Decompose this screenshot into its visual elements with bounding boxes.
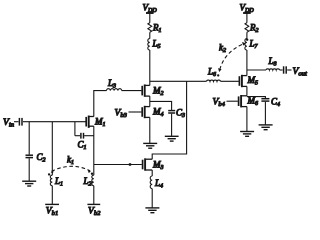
wire L3 to M2 gate bbox=[122, 90, 142, 92]
wire M2 source to M4 drain bbox=[149, 96, 151, 107]
svg-text:k2: k2 bbox=[219, 43, 226, 55]
coupling k1 dashed arc bbox=[48, 166, 93, 175]
wire to Vout bbox=[287, 69, 291, 71]
label Vb3 bbox=[115, 108, 128, 120]
ground under L4 bbox=[145, 208, 159, 213]
svg-text:L2: L2 bbox=[83, 176, 92, 188]
capacitor C2 bbox=[26, 155, 34, 157]
label R1 bbox=[152, 23, 162, 35]
resistor R2 bbox=[245, 23, 249, 33]
svg-text:M2: M2 bbox=[152, 86, 164, 98]
wire C4 to ground bbox=[264, 102, 266, 125]
svg-text:C3: C3 bbox=[176, 108, 185, 120]
capacitor C4 bbox=[261, 99, 269, 101]
label Vb2 bbox=[88, 205, 101, 217]
wire output node down to M3 drain bbox=[152, 81, 186, 159]
wire R2 to L7 bbox=[246, 32, 248, 38]
label M6 bbox=[247, 96, 259, 108]
resistor R1 bbox=[148, 23, 152, 33]
node Vb1 terminal bar bbox=[45, 203, 59, 205]
label R2 bbox=[249, 23, 259, 35]
wire VDD to R2 bbox=[246, 13, 248, 23]
wire L6 to M5 gate bbox=[221, 80, 239, 82]
svg-text:Vb1: Vb1 bbox=[46, 205, 58, 217]
svg-text:M3: M3 bbox=[152, 160, 164, 172]
svg-text:L5: L5 bbox=[152, 39, 161, 51]
label M5 bbox=[247, 75, 259, 87]
ground under C3 bbox=[165, 136, 179, 141]
transistor M6 bbox=[239, 95, 247, 107]
transistor M4 bbox=[142, 106, 150, 118]
wire C1 right lead bbox=[84, 135, 94, 137]
capacitor input coupling bbox=[19, 118, 22, 126]
inductor L5 bbox=[148, 39, 150, 50]
wire M1 source down bbox=[93, 126, 95, 164]
label Vb4 bbox=[213, 97, 226, 109]
svg-text:k1: k1 bbox=[67, 155, 74, 167]
svg-text:L1: L1 bbox=[54, 176, 63, 188]
label M3 bbox=[152, 160, 164, 172]
node Vin label bbox=[3, 117, 15, 129]
svg-text:L4: L4 bbox=[154, 178, 163, 190]
inductor L3 bbox=[107, 89, 122, 91]
node Vb2 terminal bar bbox=[87, 203, 100, 205]
ground under M4 bbox=[143, 143, 157, 148]
label k2 bbox=[219, 43, 226, 55]
inductor L2 bbox=[92, 175, 94, 186]
label L3 bbox=[107, 78, 116, 90]
svg-text:L7: L7 bbox=[249, 39, 259, 51]
svg-text:Vout: Vout bbox=[293, 66, 307, 78]
wire VDD to R1 bbox=[149, 13, 151, 23]
wire M6 source to ground bbox=[246, 107, 248, 132]
inductor L7 bbox=[245, 39, 247, 50]
wire node to C3 bbox=[150, 101, 172, 110]
label VDD left bbox=[143, 3, 158, 15]
wire L5 to M2 drain bbox=[149, 50, 151, 85]
label L8 bbox=[268, 56, 277, 68]
wire M5 source to M6 drain bbox=[246, 86, 248, 95]
wire M1 source node to L2 bbox=[93, 165, 95, 176]
wire Vb3 to M4 gate bbox=[129, 111, 142, 113]
label L2 bbox=[83, 176, 92, 188]
svg-text:C1: C1 bbox=[78, 140, 87, 152]
wire L1 branch bbox=[51, 122, 53, 176]
svg-text:M6: M6 bbox=[247, 96, 259, 108]
transistor M1 bbox=[86, 116, 94, 128]
svg-text:M4: M4 bbox=[152, 107, 164, 119]
label L1 bbox=[54, 176, 63, 188]
label C3 bbox=[176, 108, 185, 120]
wire M1 drain up bbox=[94, 91, 107, 117]
label Vb1 bbox=[46, 205, 58, 217]
wire L8 to output cap bbox=[280, 69, 283, 71]
wire C3 to ground bbox=[171, 114, 173, 136]
svg-text:R2: R2 bbox=[249, 23, 259, 35]
wire L1 to Vb1 bbox=[51, 186, 53, 205]
wire node to C4 bbox=[247, 97, 266, 99]
coupling k2 dashed arc bbox=[217, 39, 248, 77]
wire Vb4 to M6 gate bbox=[227, 100, 238, 102]
label M2 bbox=[152, 86, 164, 98]
svg-text:C2: C2 bbox=[37, 152, 46, 164]
label k1 bbox=[67, 155, 74, 167]
label C1 bbox=[78, 140, 87, 152]
label L5 bbox=[152, 39, 161, 51]
wire M3 source to L4 bbox=[151, 170, 153, 176]
svg-text:M1: M1 bbox=[94, 117, 106, 129]
label L7 bbox=[249, 39, 259, 51]
svg-text:L8: L8 bbox=[268, 56, 277, 68]
wire source node to M3 gate bbox=[94, 164, 142, 166]
label C2 bbox=[37, 152, 46, 164]
svg-text:L3: L3 bbox=[107, 78, 116, 90]
wire stage1 output bbox=[150, 80, 207, 82]
wire C2 branch bbox=[28, 122, 30, 155]
ground under M6 bbox=[240, 132, 254, 137]
wire L7 to M5 drain bbox=[246, 50, 248, 76]
capacitor C1 bbox=[81, 133, 84, 139]
transistor M3 bbox=[143, 158, 153, 170]
inductor L4 bbox=[150, 176, 152, 189]
label L6 bbox=[207, 67, 216, 79]
wire L4 to ground bbox=[151, 189, 153, 208]
wire C1 left lead bbox=[75, 135, 80, 137]
svg-text:Vin: Vin bbox=[3, 117, 15, 129]
power VDD right bar bbox=[243, 12, 251, 14]
ground under C2 bbox=[22, 181, 36, 186]
node junction dot bbox=[129, 163, 132, 166]
svg-text:M5: M5 bbox=[247, 75, 259, 87]
svg-text:Vb2: Vb2 bbox=[88, 205, 101, 217]
label VDD right bbox=[240, 3, 255, 15]
ground under C4 bbox=[259, 125, 273, 130]
svg-text:Vb4: Vb4 bbox=[213, 97, 226, 109]
svg-text:Vb3: Vb3 bbox=[115, 108, 128, 120]
inductor L8 bbox=[266, 69, 280, 70]
label C4 bbox=[271, 97, 280, 109]
label M4 bbox=[152, 107, 164, 119]
svg-text:R1: R1 bbox=[152, 23, 162, 35]
label M1 bbox=[94, 117, 106, 129]
wire M4 source to ground bbox=[149, 117, 151, 143]
capacitor C3 bbox=[168, 111, 175, 113]
inductor L1 bbox=[50, 175, 52, 186]
transistor M2 bbox=[142, 84, 150, 96]
power VDD left bar bbox=[146, 12, 154, 14]
wire R1 to L5 bbox=[149, 32, 151, 38]
inductor L6 bbox=[207, 80, 221, 81]
wire C1 branch vertical bbox=[74, 122, 76, 136]
label L4 bbox=[154, 178, 163, 190]
wire L2 to Vb2 bbox=[93, 186, 95, 205]
transistor M5 bbox=[239, 75, 247, 87]
svg-text:L6: L6 bbox=[207, 67, 216, 79]
capacitor output coupling bbox=[284, 66, 287, 73]
wire input node bbox=[23, 121, 86, 123]
wire Vin lead bbox=[14, 121, 18, 123]
wire M5 drain node bbox=[247, 69, 266, 71]
wire C2 to ground bbox=[28, 158, 30, 180]
svg-text:C4: C4 bbox=[271, 97, 280, 109]
label Vout bbox=[293, 66, 307, 78]
